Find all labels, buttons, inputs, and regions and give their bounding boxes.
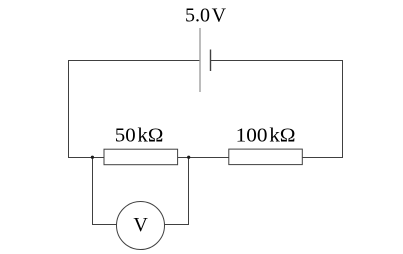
svg-text:50 kΩ: 50 kΩ	[115, 125, 164, 147]
svg-text:5.0 V: 5.0 V	[185, 5, 227, 27]
svg-text:100 kΩ: 100 kΩ	[236, 125, 296, 147]
svg-text:V: V	[133, 214, 148, 236]
